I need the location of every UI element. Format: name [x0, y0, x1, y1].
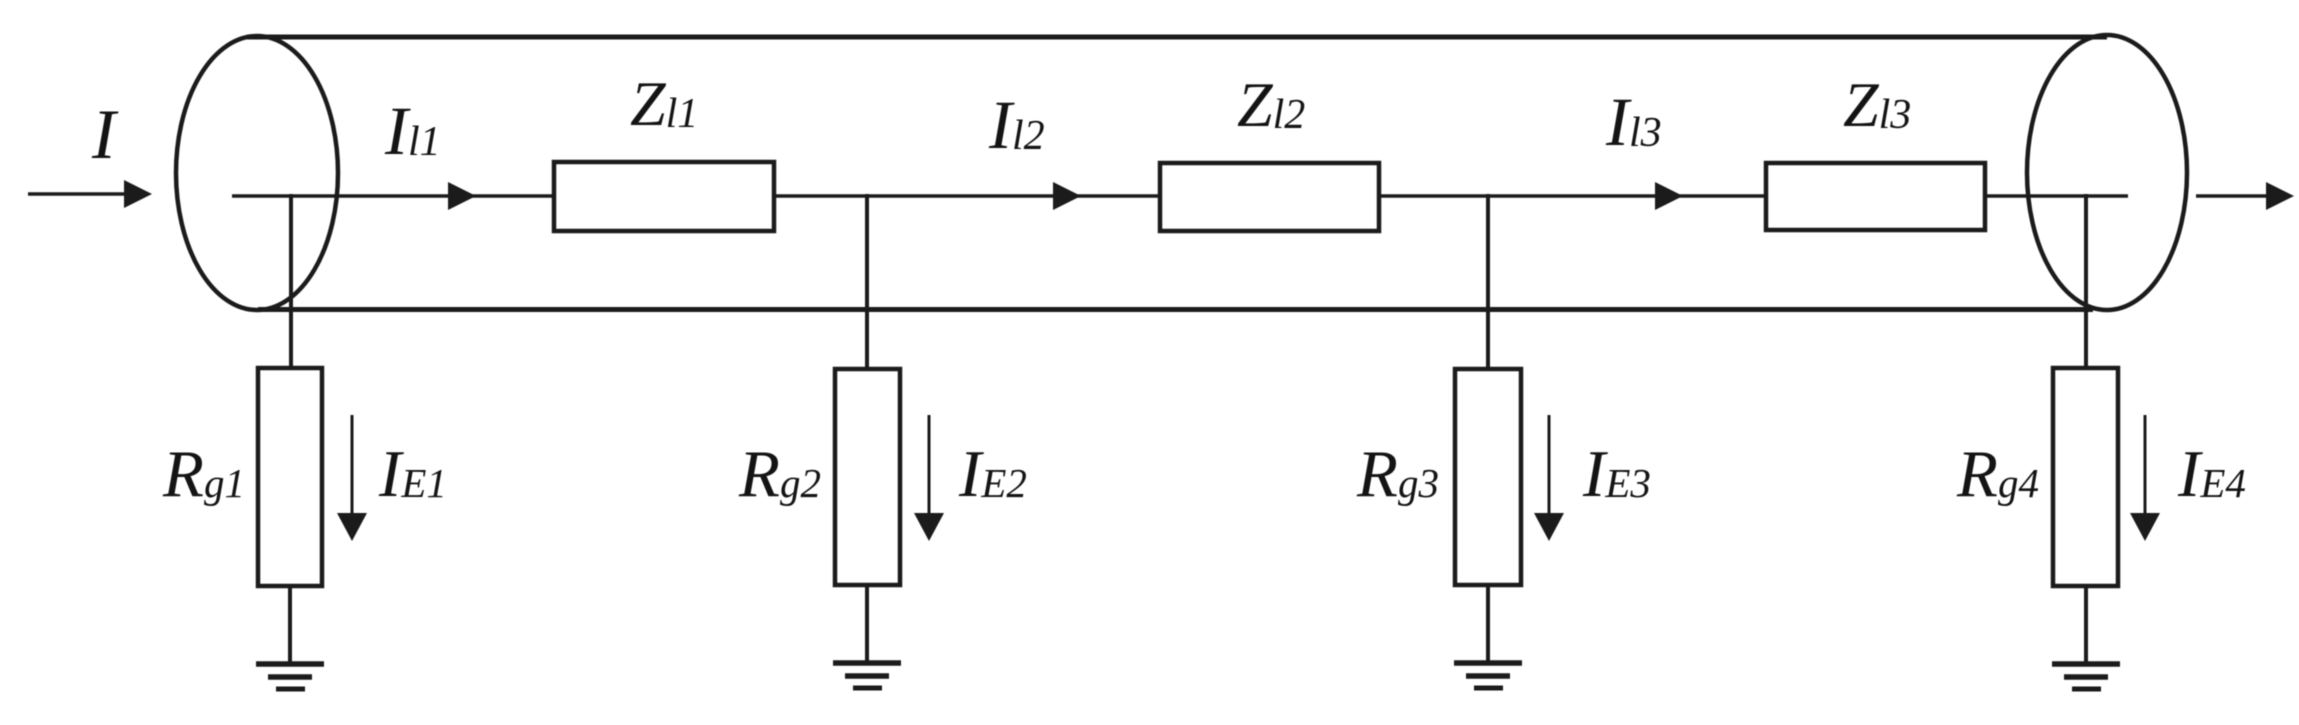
- wire: output current arrow: [2196, 182, 2294, 210]
- arrowhead of branch current I_l3: [1655, 182, 1683, 210]
- wire: input current arrow: [28, 180, 152, 208]
- node tap wire to R_g3: [1486, 194, 1490, 371]
- resistor R_g1: [258, 368, 322, 586]
- svg-text:Zl3: Zl3: [1843, 69, 1911, 140]
- ground of R_g4: [2052, 664, 2120, 689]
- left pipe ellipse: [176, 36, 338, 310]
- resistor R_g3: [1455, 369, 1521, 585]
- resistor R_g2: [835, 369, 900, 585]
- arrow of earth current I_E1: [337, 415, 367, 541]
- node tap wire to R_g2: [865, 194, 869, 371]
- svg-text:IE1: IE1: [378, 437, 447, 511]
- arrowhead of branch current I_l2: [1053, 182, 1081, 210]
- svg-text:IE2: IE2: [958, 437, 1027, 511]
- right pipe ellipse: [2027, 35, 2187, 310]
- svg-text:Rg1: Rg1: [162, 437, 245, 511]
- ground of R_g1: [256, 664, 324, 689]
- svg-text:IE3: IE3: [1582, 437, 1651, 511]
- svg-text:Il1: Il1: [384, 93, 441, 169]
- svg-text:I: I: [91, 96, 119, 174]
- svg-text:IE4: IE4: [2177, 437, 2246, 511]
- pipe bottom wire: [258, 307, 2093, 312]
- arrowhead of branch current I_l1: [448, 182, 476, 210]
- wire: R_g4 to ground: [2084, 586, 2088, 664]
- center conductor wire: [232, 194, 2128, 198]
- wire: R_g1 to ground: [288, 586, 292, 664]
- arrow of earth current I_E2: [914, 415, 944, 541]
- arrow of earth current I_E3: [1534, 415, 1564, 541]
- wire: R_g2 to ground: [865, 585, 869, 663]
- svg-text:Rg3: Rg3: [1356, 437, 1439, 511]
- impedance Z_l1: [554, 162, 774, 231]
- pipe top wire: [247, 35, 2107, 40]
- resistor R_g4: [2053, 368, 2118, 586]
- svg-text:Rg4: Rg4: [1956, 437, 2039, 511]
- impedance Z_l3: [1766, 163, 1985, 230]
- svg-text:Zl2: Zl2: [1237, 69, 1305, 140]
- svg-text:Rg2: Rg2: [738, 437, 821, 511]
- node tap wire to R_g1: [289, 194, 293, 370]
- ground of R_g3: [1454, 663, 1522, 688]
- node tap wire to R_g4: [2084, 194, 2088, 371]
- svg-text:Il2: Il2: [988, 87, 1045, 163]
- svg-text:Zl1: Zl1: [630, 68, 698, 139]
- svg-text:Il3: Il3: [1605, 84, 1662, 160]
- arrow of earth current I_E4: [2130, 415, 2160, 541]
- wire: R_g3 to ground: [1486, 585, 1490, 663]
- ground of R_g2: [833, 663, 901, 688]
- impedance Z_l2: [1160, 163, 1379, 231]
